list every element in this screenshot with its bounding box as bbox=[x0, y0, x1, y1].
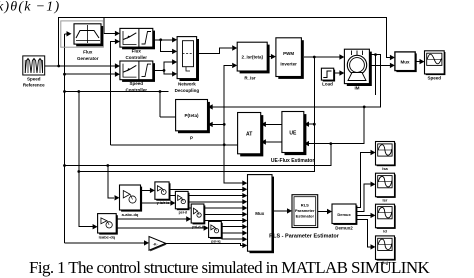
wire: demux to scope Isq bbox=[356, 220, 371, 247]
wire: gain input bbox=[65, 242, 145, 244]
wire: load output to IM bbox=[334, 72, 340, 74]
block scope Isr bbox=[376, 173, 396, 202]
block AT bbox=[238, 113, 264, 157]
wire: demux to scope Isr bbox=[356, 184, 371, 211]
wire: IM auxiliary output stub bbox=[375, 55, 377, 95]
block psi transform 2 bbox=[175, 191, 189, 214]
svg-text:Reference: Reference bbox=[23, 83, 45, 88]
svg-text:Isa: Isa bbox=[382, 166, 388, 171]
svg-text:psi-d-iq: psi-d-iq bbox=[192, 225, 205, 229]
block psi transform 4 bbox=[209, 221, 223, 243]
svg-text:psi-d: psi-d bbox=[179, 211, 187, 215]
wire: PWM output to IM bbox=[304, 56, 340, 58]
wire: demux to scope Isd bbox=[356, 214, 371, 216]
block Load (step source) bbox=[321, 68, 335, 86]
block P(teta) rotation transform bbox=[176, 100, 210, 141]
svg-text:Controller: Controller bbox=[126, 88, 148, 93]
equation fragment k)theta(k-1) bbox=[0, 0, 60, 15]
block Speed Controller (PI + saturation) bbox=[120, 61, 155, 93]
block Network Decoupling bbox=[175, 37, 200, 93]
block scope Isa bbox=[376, 142, 396, 171]
wire: to speed controller input 2 bbox=[65, 73, 116, 75]
wire: theta down to tall mux input 1 bbox=[224, 145, 243, 183]
svg-text:AT: AT bbox=[246, 132, 252, 138]
svg-text:P: P bbox=[190, 136, 193, 141]
wire: AT theta output long line bbox=[111, 144, 238, 146]
wire: RLS to demux bbox=[318, 211, 328, 213]
svg-text:2_isr(teta): 2_isr(teta) bbox=[241, 55, 263, 60]
svg-text:Flux: Flux bbox=[83, 50, 93, 55]
block Speed scope bbox=[425, 51, 446, 81]
wire: flux controller output split to decoupling inputs 1,2 bbox=[153, 40, 173, 52]
wire: speed controller output split to decoupling inputs 3,4 bbox=[153, 62, 173, 74]
svg-text:P(teta): P(teta) bbox=[184, 113, 199, 118]
svg-text:Generator: Generator bbox=[77, 56, 99, 61]
wire: theta riser to a-abc-dq input bbox=[108, 166, 114, 198]
svg-text:Speed: Speed bbox=[130, 81, 144, 86]
svg-text:k)θ(k −1): k)θ(k −1) bbox=[0, 0, 60, 15]
svg-text:RLS: RLS bbox=[301, 203, 309, 208]
block PWM Inverter bbox=[276, 38, 304, 79]
block RLS Parameter Estimator bbox=[269, 195, 340, 240]
wire: a-abc-dq outputs bbox=[141, 190, 171, 203]
wire: UE outputs to AT inputs bbox=[265, 124, 282, 142]
block 2_isr(teta) bbox=[237, 42, 269, 80]
block Speed Reference (repeating sequence source) bbox=[23, 56, 45, 88]
svg-text:Speed: Speed bbox=[27, 77, 41, 82]
svg-text:-K-: -K- bbox=[153, 242, 159, 246]
wire: speed reference to top line and mux bbox=[59, 18, 391, 67]
wire: PWM voltage line down-left to isabc-dq bbox=[79, 124, 314, 171]
wire: branch down to UE input 2 line bbox=[307, 107, 365, 144]
block Mux (RLS input mux, tall) bbox=[248, 175, 275, 254]
wire: theta to P(teta) input 2 bbox=[212, 123, 225, 125]
wire: top line drop to flux controller input 1 bbox=[104, 18, 115, 34]
svg-text:Demux: Demux bbox=[337, 212, 351, 217]
svg-text:Controller: Controller bbox=[126, 55, 148, 60]
wire: speed reference output bbox=[45, 65, 116, 67]
block a-abc-dq transform bbox=[120, 185, 143, 217]
block Mux (speed display mux) bbox=[395, 52, 417, 72]
svg-text:UE: UE bbox=[289, 131, 297, 137]
block gain -K- bbox=[149, 237, 167, 252]
wire: decoupling output to 2_isr input 1 bbox=[197, 48, 232, 54]
wire: isabc-dq outputs bbox=[117, 219, 204, 228]
wire: 2_isr output to PWM inverter bbox=[268, 56, 272, 58]
svg-text:Mux: Mux bbox=[255, 211, 264, 216]
block psi transform 1 bbox=[155, 182, 171, 205]
block Flux Controller (PI + saturation) bbox=[120, 28, 155, 60]
svg-text:Parameter: Parameter bbox=[295, 208, 315, 213]
svg-text:RLS - Parameter Estimator: RLS - Parameter Estimator bbox=[269, 234, 340, 240]
wire: P(teta) feedback line bbox=[65, 92, 176, 118]
svg-text:isabc-dq: isabc-dq bbox=[99, 235, 116, 240]
block psi transform 3 bbox=[191, 204, 205, 229]
svg-text:Estimator: Estimator bbox=[296, 214, 315, 219]
svg-text:Inverter: Inverter bbox=[280, 62, 297, 67]
svg-text:Id: Id bbox=[383, 229, 387, 234]
wire: left feedback vertical bbox=[65, 34, 69, 243]
svg-text:IM: IM bbox=[355, 86, 360, 91]
block scope Isd bbox=[376, 204, 396, 233]
wire: gain output up into mux bbox=[165, 243, 244, 245]
figure caption bbox=[29, 258, 429, 278]
block IM induction motor bbox=[344, 49, 371, 90]
wire: IM output 2 to mux bbox=[370, 64, 391, 66]
block scope Isq bbox=[376, 236, 396, 265]
svg-text:R_isr: R_isr bbox=[244, 76, 256, 81]
svg-text:Speed: Speed bbox=[428, 76, 442, 81]
wires: transformation outputs into tall mux bbox=[169, 189, 243, 239]
block Demux bbox=[332, 204, 357, 231]
wire: vertical from P line down to isabc-dq input bbox=[79, 92, 93, 227]
svg-text:Flux: Flux bbox=[132, 49, 142, 54]
svg-text:a-abc-dq: a-abc-dq bbox=[122, 212, 139, 217]
wire: theta vertical riser bbox=[224, 65, 232, 144]
wire: tall mux to RLS estimator bbox=[272, 210, 287, 212]
svg-text:UE-Flux Estimator: UE-Flux Estimator bbox=[271, 158, 314, 164]
svg-text:Decoupling: Decoupling bbox=[175, 88, 200, 93]
block isabc-dq transform bbox=[98, 214, 118, 240]
svg-text:Demux2: Demux2 bbox=[335, 226, 353, 231]
svg-text:y-is/r-is: y-is/r-is bbox=[157, 201, 170, 205]
wire: theta feedback up to flux controller input 2 bbox=[111, 42, 116, 145]
wire: theta line down to bottom bundle bbox=[65, 144, 331, 166]
wire: mux to speed scope bbox=[415, 61, 420, 63]
svg-text:Network: Network bbox=[178, 82, 196, 87]
svg-text:Load: Load bbox=[322, 82, 333, 87]
wire: PWM branch down to UE input 1 bbox=[307, 57, 315, 124]
svg-text:Mux: Mux bbox=[401, 60, 410, 65]
wire: IM output 1 to P(teta) input 1 bbox=[212, 55, 381, 107]
block UE flux estimator bbox=[271, 112, 314, 165]
svg-text:psi-iq: psi-iq bbox=[211, 240, 220, 244]
svg-text:PWM: PWM bbox=[283, 51, 294, 56]
svg-text:Isr: Isr bbox=[383, 198, 388, 203]
wire: demux to scope Isa bbox=[356, 153, 371, 208]
block Flux Generator bbox=[61, 21, 104, 61]
